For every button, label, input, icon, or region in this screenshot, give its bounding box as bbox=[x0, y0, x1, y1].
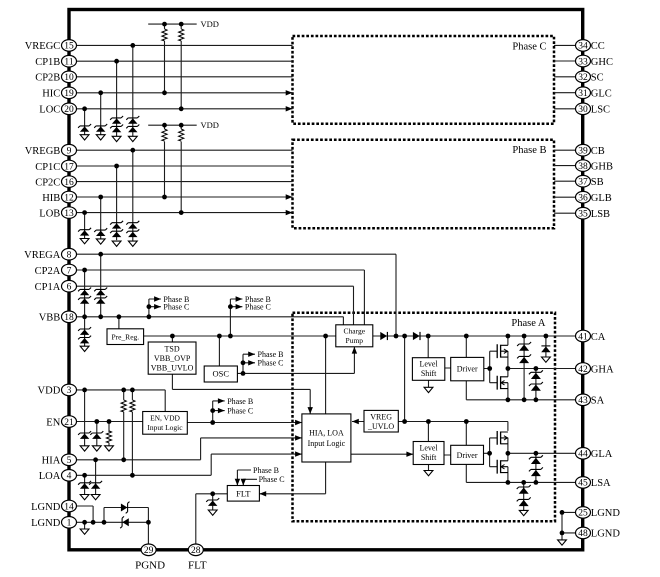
svg-text:31: 31 bbox=[578, 89, 588, 99]
svg-text:FLT: FLT bbox=[188, 560, 207, 572]
svg-text:28: 28 bbox=[191, 546, 201, 556]
svg-text:30: 30 bbox=[578, 105, 588, 115]
svg-text:SA: SA bbox=[591, 396, 605, 407]
svg-text:Driver: Driver bbox=[457, 365, 478, 374]
svg-text:32: 32 bbox=[578, 73, 588, 83]
svg-text:3: 3 bbox=[67, 386, 72, 396]
svg-text:Phase A: Phase A bbox=[511, 318, 546, 329]
svg-text:Charge: Charge bbox=[344, 327, 366, 336]
svg-text:VREGC: VREGC bbox=[25, 41, 61, 52]
svg-text:25: 25 bbox=[578, 509, 588, 519]
svg-text:Phase B: Phase B bbox=[253, 466, 279, 475]
svg-text:38: 38 bbox=[578, 162, 588, 172]
svg-text:SC: SC bbox=[591, 73, 604, 84]
svg-text:CP2C: CP2C bbox=[35, 177, 60, 188]
svg-text:21: 21 bbox=[64, 418, 74, 428]
svg-text:HIB: HIB bbox=[42, 193, 60, 204]
svg-text:5: 5 bbox=[67, 456, 72, 466]
svg-text:TSD: TSD bbox=[165, 345, 180, 354]
svg-text:CA: CA bbox=[591, 332, 606, 343]
svg-text:Phase C: Phase C bbox=[227, 407, 253, 416]
svg-text:CC: CC bbox=[591, 41, 605, 52]
svg-text:OSC: OSC bbox=[213, 369, 230, 379]
svg-text:VREG: VREG bbox=[370, 412, 392, 421]
svg-text:11: 11 bbox=[64, 58, 73, 68]
svg-text:CP2A: CP2A bbox=[35, 266, 61, 277]
svg-text:36: 36 bbox=[578, 194, 588, 204]
svg-text:LSB: LSB bbox=[591, 209, 610, 220]
svg-text:Driver: Driver bbox=[457, 451, 478, 460]
svg-text:HIA: HIA bbox=[42, 456, 61, 467]
svg-text:19: 19 bbox=[64, 89, 74, 99]
svg-text:Phase C: Phase C bbox=[258, 359, 284, 368]
svg-text:LOC: LOC bbox=[39, 105, 60, 116]
svg-text:Pre_Reg.: Pre_Reg. bbox=[111, 333, 139, 342]
svg-text:48: 48 bbox=[578, 529, 588, 539]
svg-text:Input Logic: Input Logic bbox=[308, 439, 346, 448]
svg-text:VBB_UVLO: VBB_UVLO bbox=[151, 364, 194, 373]
svg-text:35: 35 bbox=[578, 210, 588, 220]
svg-text:12: 12 bbox=[64, 193, 74, 203]
svg-text:VBB_OVP: VBB_OVP bbox=[154, 354, 191, 363]
svg-text:43: 43 bbox=[578, 396, 588, 406]
svg-text:Level: Level bbox=[419, 444, 438, 453]
svg-text:VDD: VDD bbox=[201, 120, 219, 130]
svg-text:FLT: FLT bbox=[236, 489, 251, 499]
svg-text:Phase C: Phase C bbox=[245, 303, 271, 312]
svg-text:17: 17 bbox=[64, 162, 74, 172]
svg-text:GHC: GHC bbox=[591, 57, 613, 68]
svg-text:VREGA: VREGA bbox=[24, 250, 61, 261]
svg-text:29: 29 bbox=[144, 546, 154, 556]
svg-text:HIA, LOA: HIA, LOA bbox=[309, 428, 344, 437]
svg-text:PGND: PGND bbox=[135, 560, 165, 572]
svg-text:VDD: VDD bbox=[38, 386, 61, 397]
svg-text:42: 42 bbox=[578, 365, 588, 375]
svg-text:Input Logic: Input Logic bbox=[147, 423, 183, 432]
svg-text:Shift: Shift bbox=[421, 369, 437, 378]
svg-text:Phase C: Phase C bbox=[163, 303, 189, 312]
svg-text:16: 16 bbox=[64, 178, 74, 188]
svg-text:CP1A: CP1A bbox=[35, 282, 61, 293]
svg-text:CP1B: CP1B bbox=[35, 57, 60, 68]
svg-text:13: 13 bbox=[64, 209, 74, 219]
svg-text:CB: CB bbox=[591, 146, 605, 157]
svg-text:EN, VDD: EN, VDD bbox=[150, 414, 180, 423]
svg-text:VDD: VDD bbox=[201, 19, 219, 29]
svg-text:4: 4 bbox=[67, 472, 72, 482]
svg-text:6: 6 bbox=[67, 283, 72, 293]
svg-text:44: 44 bbox=[578, 450, 588, 460]
svg-text:VREGB: VREGB bbox=[25, 146, 61, 157]
svg-text:LGND: LGND bbox=[31, 518, 61, 529]
svg-text:LGND: LGND bbox=[591, 508, 621, 519]
svg-text:EN: EN bbox=[46, 417, 60, 428]
svg-text:8: 8 bbox=[67, 251, 72, 261]
svg-text:39: 39 bbox=[578, 147, 588, 157]
svg-text:GLA: GLA bbox=[591, 449, 613, 460]
svg-text:LOA: LOA bbox=[39, 471, 61, 482]
svg-text:LGND: LGND bbox=[31, 502, 61, 513]
svg-text:Phase C: Phase C bbox=[512, 42, 546, 53]
svg-text:Pump: Pump bbox=[346, 336, 364, 345]
svg-text:41: 41 bbox=[578, 332, 588, 342]
svg-text:9: 9 bbox=[67, 147, 72, 157]
svg-text:18: 18 bbox=[64, 313, 74, 323]
svg-text:HIC: HIC bbox=[42, 89, 60, 100]
svg-text:Phase B: Phase B bbox=[512, 145, 546, 156]
svg-text:14: 14 bbox=[64, 502, 74, 512]
svg-text:LSA: LSA bbox=[591, 478, 611, 489]
svg-text:Phase C: Phase C bbox=[259, 475, 285, 484]
svg-text:_UVLO: _UVLO bbox=[367, 422, 394, 431]
svg-text:GLB: GLB bbox=[591, 193, 612, 204]
svg-text:CP2B: CP2B bbox=[35, 73, 60, 84]
svg-text:Phase B: Phase B bbox=[227, 397, 253, 406]
svg-text:15: 15 bbox=[64, 42, 74, 52]
svg-text:33: 33 bbox=[578, 57, 588, 67]
svg-text:LGND: LGND bbox=[591, 529, 621, 540]
svg-text:37: 37 bbox=[578, 178, 588, 188]
svg-text:GLC: GLC bbox=[591, 89, 612, 100]
svg-text:LSC: LSC bbox=[591, 105, 610, 116]
svg-text:45: 45 bbox=[578, 479, 588, 489]
svg-text:GHA: GHA bbox=[591, 364, 614, 375]
svg-text:Level: Level bbox=[419, 360, 438, 369]
svg-text:GHB: GHB bbox=[591, 161, 613, 172]
svg-text:20: 20 bbox=[64, 105, 74, 115]
svg-text:Shift: Shift bbox=[421, 453, 437, 462]
svg-text:10: 10 bbox=[64, 73, 74, 83]
svg-text:CP1C: CP1C bbox=[35, 162, 60, 173]
svg-text:SB: SB bbox=[591, 177, 604, 188]
svg-text:VBB: VBB bbox=[39, 313, 61, 324]
svg-text:34: 34 bbox=[578, 42, 588, 52]
svg-text:LOB: LOB bbox=[39, 208, 60, 219]
svg-text:7: 7 bbox=[67, 266, 72, 276]
svg-text:1: 1 bbox=[67, 519, 72, 529]
